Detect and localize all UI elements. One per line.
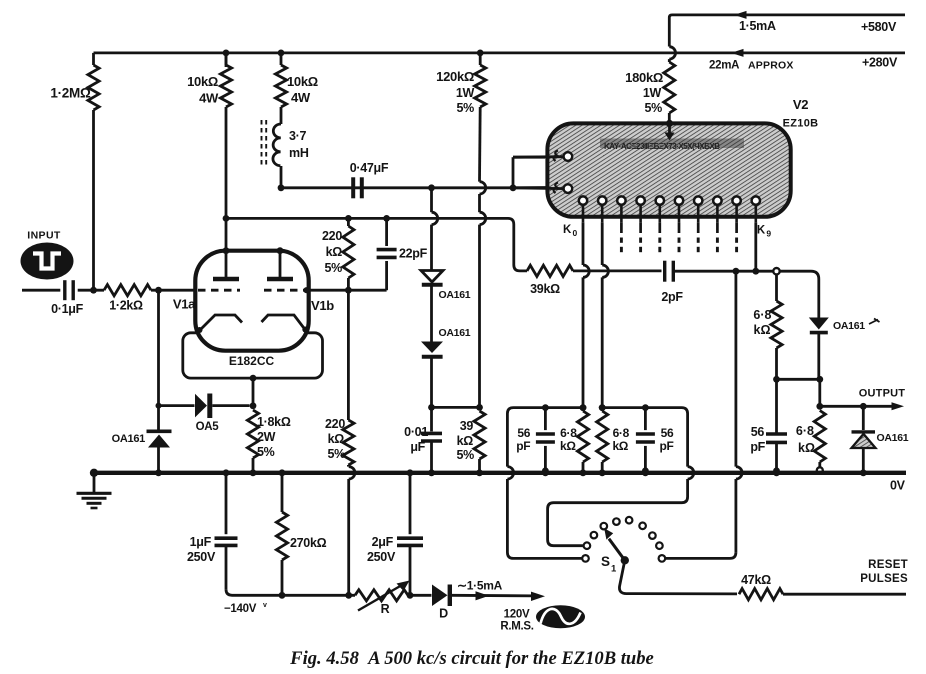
svg-text:PULSES: PULSES [860,573,908,585]
svg-text:INPUT: INPUT [27,230,61,242]
svg-text:OUTPUT: OUTPUT [859,388,906,400]
svg-text:22mA: 22mA [709,60,739,72]
svg-text:pF: pF [750,440,765,454]
svg-text:pF: pF [516,439,530,453]
svg-text:EZ10B: EZ10B [783,118,819,130]
svg-text:1W: 1W [643,86,662,100]
svg-text:R: R [381,602,390,616]
svg-text:V1b: V1b [311,298,334,313]
svg-text:E182CC: E182CC [229,354,275,368]
svg-text:pF: pF [659,439,673,453]
svg-text:v: v [263,602,267,609]
svg-text:220: 220 [325,417,345,431]
svg-text:39kΩ: 39kΩ [530,282,560,296]
svg-text:10kΩ: 10kΩ [187,74,218,89]
svg-text:2μF: 2μF [372,535,394,549]
svg-text:250V: 250V [187,550,216,564]
svg-text:mH: mH [289,146,309,160]
svg-text:OA161: OA161 [439,289,471,301]
svg-text:3·7: 3·7 [289,129,307,143]
svg-text:−140V: −140V [224,603,257,615]
svg-text:+580V: +580V [861,20,897,34]
svg-text:5%: 5% [645,101,663,115]
svg-text:1: 1 [611,564,617,575]
svg-text:+280V: +280V [862,56,898,70]
svg-text:4W: 4W [199,91,219,106]
svg-text:μF: μF [410,440,425,454]
svg-text:∼1·5mA: ∼1·5mA [457,579,503,593]
svg-text:kΩ: kΩ [612,439,628,453]
svg-text:RESET: RESET [868,559,908,571]
svg-text:S: S [601,554,610,569]
svg-text:120kΩ: 120kΩ [436,69,474,84]
svg-text:250V: 250V [367,550,396,564]
svg-text:0: 0 [573,228,578,238]
svg-text:180kΩ: 180kΩ [625,70,663,85]
svg-text:R.M.S.: R.M.S. [500,621,533,633]
svg-text:6·8: 6·8 [753,308,771,322]
svg-text:1W: 1W [456,86,475,100]
svg-text:270kΩ: 270kΩ [290,536,327,550]
svg-text:0·01: 0·01 [404,425,428,439]
svg-text:5%: 5% [457,101,475,115]
svg-text:39: 39 [460,419,474,433]
svg-text:2W: 2W [257,430,276,444]
svg-text:OA5: OA5 [196,421,220,433]
svg-text:6·8: 6·8 [796,424,814,438]
svg-text:K: K [563,224,572,236]
svg-text:kΩ: kΩ [754,323,771,337]
svg-text:OA161: OA161 [439,327,471,339]
svg-text:V1a: V1a [173,297,196,312]
svg-text:kΩ: kΩ [326,245,343,259]
svg-text:1·8kΩ: 1·8kΩ [257,415,291,429]
svg-text:5%: 5% [328,447,346,461]
svg-text:V2: V2 [793,97,808,112]
svg-text:OA161: OA161 [877,432,909,444]
svg-text:6·8: 6·8 [560,426,577,440]
svg-text:K: K [757,225,766,237]
svg-text:56: 56 [751,425,765,439]
svg-text:OA161: OA161 [833,320,865,332]
svg-text:120V: 120V [504,609,530,621]
svg-text:1·5mA: 1·5mA [739,19,776,33]
svg-text:1μF: 1μF [190,535,212,549]
svg-text:2pF: 2pF [661,290,683,304]
svg-text:0·1μF: 0·1μF [51,302,84,316]
svg-text:220: 220 [322,229,342,243]
svg-text:kΩ: kΩ [457,434,474,448]
svg-text:APPROX: APPROX [748,60,794,72]
svg-text:0V: 0V [890,479,906,493]
svg-text:Fig. 4.58 A 500 kc/s circuit: Fig. 4.58 A 500 kc/s circuit for the EZ1… [289,648,654,669]
svg-text:kΩ: kΩ [328,432,345,446]
svg-text:D: D [439,607,448,621]
svg-text:5%: 5% [257,445,275,459]
svg-text:1·2MΩ: 1·2MΩ [50,86,91,101]
svg-text:1·2kΩ: 1·2kΩ [109,299,143,313]
svg-text:6·8: 6·8 [613,426,630,440]
svg-text:56: 56 [661,426,674,440]
svg-text:0·47μF: 0·47μF [350,161,389,175]
svg-text:22pF: 22pF [399,247,428,261]
svg-text:47kΩ: 47kΩ [741,573,771,587]
svg-text:OA161: OA161 [112,433,146,445]
svg-text:5%: 5% [457,448,475,462]
svg-text:kΩ: kΩ [798,441,815,455]
svg-text:kΩ: kΩ [560,439,576,453]
svg-text:56: 56 [517,426,530,440]
svg-text:5%: 5% [325,261,343,275]
svg-text:10kΩ: 10kΩ [287,74,318,89]
svg-text:9: 9 [766,229,771,239]
svg-text:4W: 4W [291,90,311,105]
